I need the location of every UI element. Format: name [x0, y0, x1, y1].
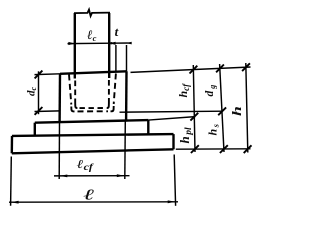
svg-text:ℓc: ℓc	[87, 27, 97, 43]
svg-text:dg: dg	[204, 85, 217, 97]
svg-text:t: t	[115, 24, 119, 39]
svg-text:dc: dc	[26, 87, 39, 97]
svg-text:hpl: hpl	[177, 127, 194, 143]
svg-text:hs: hs	[206, 123, 221, 135]
svg-text:hcf: hcf	[176, 83, 191, 98]
svg-text:ℓcf: ℓcf	[77, 158, 95, 173]
svg-text:ℓ: ℓ	[83, 186, 94, 203]
svg-text:h: h	[230, 106, 244, 116]
